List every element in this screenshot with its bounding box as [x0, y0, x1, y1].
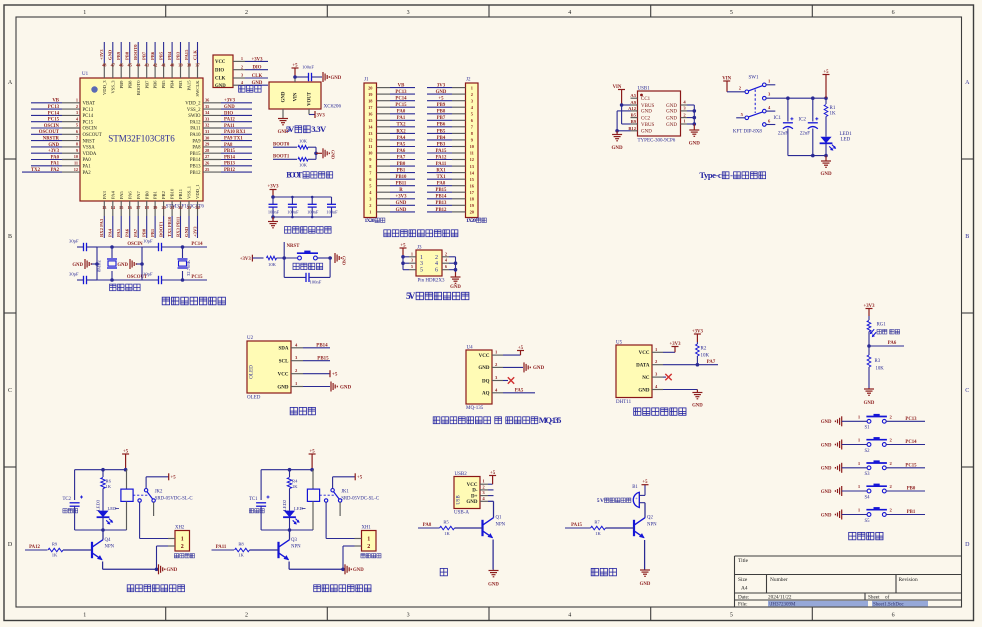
- relay switch JK1: [320, 489, 379, 517]
- wire net PA7 DATA: [663, 360, 718, 366]
- svg-text:VBAT: VBAT: [83, 102, 96, 107]
- svg-text:GND: GND: [641, 130, 652, 135]
- svg-text:10K: 10K: [299, 139, 308, 144]
- power +5 regulator: [292, 64, 299, 78]
- svg-text:GND: GND: [821, 420, 832, 425]
- svg-text:B12: B12: [628, 126, 636, 131]
- caption harmful gas MQ-135: [433, 415, 561, 425]
- svg-text:PA11: PA11: [190, 127, 201, 132]
- wire net PB14: [303, 344, 330, 349]
- svg-text:GND: GND: [340, 385, 352, 390]
- J2 pin 15 wire net TX1: [427, 175, 466, 180]
- svg-text:VDD_3: VDD_3: [102, 80, 107, 95]
- svg-text:PB4: PB4: [437, 136, 446, 141]
- wire net RX3 PB11 at U1 pin 22: [175, 216, 180, 238]
- svg-text:LED3: LED3: [96, 499, 101, 511]
- svg-text:19: 19: [153, 205, 157, 210]
- svg-text:+5: +5: [518, 346, 524, 351]
- svg-text:PB5: PB5: [437, 129, 446, 134]
- svg-text:10: 10: [74, 154, 78, 159]
- svg-text:45: 45: [128, 63, 132, 68]
- svg-text:GND: GND: [282, 91, 287, 102]
- svg-text:GND: GND: [450, 285, 461, 290]
- J2 pin 10 wire net PB3: [427, 142, 466, 147]
- connector J1 1x20 header: [364, 78, 377, 218]
- svg-text:J2: J2: [466, 78, 471, 83]
- svg-text:PA0: PA0: [83, 158, 92, 163]
- svg-text:1X20: 1X20: [365, 218, 375, 224]
- U1 pin 41 PB5: [161, 63, 166, 89]
- svg-text:+3V3: +3V3: [224, 99, 236, 104]
- svg-text:3: 3: [407, 10, 410, 16]
- svg-text:100nF: 100nF: [268, 210, 280, 215]
- wire Q1 emitter to ground: [492, 540, 494, 570]
- transistor Q1 NPN: [483, 516, 506, 539]
- svg-text:VBUS: VBUS: [641, 104, 655, 109]
- ground button S5: [821, 510, 867, 520]
- J2 pin 13 wire net PA11: [427, 162, 466, 167]
- wire SW1 pin3 to power rail: [766, 96, 828, 100]
- resistor R6 1K: [101, 470, 112, 511]
- J1 pin 15 wire net PA1: [377, 116, 416, 121]
- J1 pin 16 wire net PA0: [377, 110, 416, 115]
- node NRST: [284, 242, 300, 258]
- svg-text:PA5: PA5: [119, 191, 124, 199]
- capacitor 30pF top: [69, 239, 97, 252]
- J1 pin 12 wire net PA4: [377, 136, 416, 141]
- svg-text:PB9: PB9: [119, 80, 124, 89]
- svg-text:22: 22: [178, 205, 182, 210]
- capacitor filter 100nF #3: [307, 197, 319, 217]
- svg-text:Sheet1.SchDoc: Sheet1.SchDoc: [873, 602, 904, 607]
- J3 pin 4 wire: [442, 258, 456, 264]
- svg-text:B: B: [965, 234, 969, 240]
- connector USB2 USB-A: [454, 472, 480, 516]
- J2 pin 7 wire net PB6: [427, 123, 466, 128]
- U1 pin 44 BOOT0: [136, 63, 141, 96]
- power +5 USB2: [488, 471, 496, 484]
- P1 pin 4: [233, 80, 245, 85]
- wire relay Q4 bottom rail: [75, 528, 127, 532]
- svg-text:DIO: DIO: [215, 68, 224, 73]
- svg-text:B5: B5: [631, 113, 637, 118]
- svg-text:43: 43: [145, 63, 149, 68]
- svg-text:VSSA: VSSA: [83, 146, 96, 151]
- svg-text:PC14: PC14: [395, 97, 407, 102]
- svg-text:32: 32: [205, 123, 209, 128]
- svg-text:R5: R5: [443, 520, 449, 525]
- J1 pin 9 wire net PA7: [377, 155, 416, 160]
- wire reset right: [317, 256, 332, 260]
- U1 pin 13 PA3: [102, 191, 107, 216]
- svg-text:OSCOUT: OSCOUT: [83, 133, 102, 138]
- svg-text:VDD_2: VDD_2: [185, 102, 201, 107]
- caption MCU minimal system: [162, 297, 225, 305]
- J1 pin 4 wire net R: [377, 188, 416, 193]
- svg-text:30pF: 30pF: [69, 272, 79, 277]
- svg-text:5V: 5V: [406, 292, 416, 302]
- svg-text:IC2: IC2: [799, 118, 807, 123]
- wire net +3V3 to U1 pin 9: [31, 149, 62, 154]
- svg-text:GND: GND: [821, 513, 832, 518]
- svg-text:PB15: PB15: [190, 152, 201, 157]
- svg-text:GND: GND: [277, 385, 289, 390]
- svg-text:S5: S5: [865, 519, 871, 524]
- svg-text:8MHz: 8MHz: [97, 260, 102, 272]
- U1 pin 8 VSSA: [62, 142, 95, 151]
- J2 pin 11 wire net PA15: [427, 149, 466, 154]
- svg-text:Q1: Q1: [496, 516, 502, 521]
- U1 pin 4 PC15: [62, 116, 94, 125]
- svg-text:PB5: PB5: [161, 80, 166, 89]
- svg-text:KFT DIP-8X8: KFT DIP-8X8: [733, 129, 762, 134]
- caption crystal circuit: [110, 284, 141, 291]
- svg-text:NPN: NPN: [105, 545, 115, 550]
- svg-text:PB14: PB14: [436, 195, 448, 200]
- svg-text:+3V3: +3V3: [192, 226, 197, 237]
- svg-text:29: 29: [205, 142, 209, 147]
- wire R5 to Q1 base: [455, 527, 483, 529]
- svg-text:PB11: PB11: [396, 182, 407, 187]
- svg-text:PB2: PB2: [161, 190, 166, 199]
- svg-text:U1: U1: [82, 72, 89, 77]
- J2 pin 16 wire net PA8: [427, 182, 466, 187]
- svg-text:DHT11: DHT11: [616, 400, 632, 405]
- svg-text:OSCOUT: OSCOUT: [39, 130, 60, 135]
- svg-text:GND: GND: [666, 110, 677, 115]
- svg-text:PB3: PB3: [437, 142, 446, 147]
- svg-text:PB14: PB14: [190, 158, 201, 163]
- svg-text:PB7: PB7: [141, 51, 146, 60]
- wire net PB0 at S4: [886, 487, 925, 492]
- svg-text:OSCIN: OSCIN: [83, 127, 98, 132]
- svg-text:B1: B1: [632, 485, 638, 490]
- svg-text:5: 5: [411, 264, 413, 269]
- wire net BOOT1 at U1 pin 20: [158, 216, 163, 238]
- power +5 J3: [400, 244, 407, 257]
- svg-text:18: 18: [145, 205, 149, 210]
- svg-text:D+: D+: [471, 494, 478, 499]
- wire net PB7 at U1 pin 43: [141, 42, 146, 63]
- crystal Y2 32.768K: [178, 247, 192, 280]
- capacitor filter 100nF #4: [326, 197, 338, 217]
- IC U1 STM32F103C8T6: [80, 72, 204, 210]
- svg-text:TYPEC-300-9CP6: TYPEC-300-9CP6: [638, 139, 676, 144]
- svg-text:10K: 10K: [299, 163, 308, 168]
- U1 pin 29 PA8: [192, 142, 221, 151]
- U1 pin 15 PA5: [119, 191, 124, 216]
- svg-text:PA5: PA5: [515, 388, 524, 393]
- U2 pin 2: [291, 368, 303, 374]
- svg-text:6: 6: [892, 10, 895, 16]
- svg-text:4: 4: [435, 261, 438, 267]
- svg-text:PA15: PA15: [571, 523, 582, 528]
- svg-text:Q3: Q3: [291, 538, 297, 543]
- wire net PB5 at U1 pin 41: [158, 42, 163, 63]
- U2 pin 1: [291, 381, 303, 387]
- svg-text:12: 12: [74, 167, 78, 172]
- P1 pin 1: [233, 56, 245, 61]
- resistor R1 1K: [824, 98, 836, 137]
- svg-text:C: C: [8, 388, 12, 394]
- J3 pin 6 wire: [442, 264, 456, 270]
- ground OLED: [303, 382, 352, 392]
- wire crystal-1 left rail: [95, 247, 99, 280]
- wire net PB4 at U1 pin 40: [167, 42, 172, 63]
- USB1 pin A9: [630, 100, 637, 105]
- svg-text:PB4: PB4: [167, 51, 172, 60]
- U1 pin 30 PA9: [192, 135, 221, 144]
- crystal Y1 8MHz: [97, 247, 118, 280]
- svg-text:D: D: [8, 542, 13, 548]
- svg-text:5: 5: [76, 123, 78, 128]
- U1 pin 14 PA4: [110, 191, 115, 216]
- svg-text:U2: U2: [247, 336, 254, 341]
- svg-text:GND: GND: [820, 172, 832, 177]
- power +5 MQ-135: [503, 346, 524, 355]
- wire net PB8 at U1 pin 45: [125, 42, 130, 63]
- wire SW1 pin4 stub: [766, 110, 775, 112]
- wire net PB1 at U1 pin 19: [150, 216, 155, 238]
- svg-text:S4: S4: [865, 495, 871, 500]
- svg-text:IC1: IC1: [774, 116, 782, 121]
- J2 pin 17 wire net PB15: [427, 188, 466, 193]
- svg-text:PA6: PA6: [397, 149, 406, 154]
- wire base Q3: [250, 549, 279, 551]
- resistor R5 1K: [440, 520, 455, 536]
- svg-text:BOOT0: BOOT0: [273, 143, 290, 148]
- U1 pin 25 PB12: [190, 167, 221, 176]
- USB1 right pin 1: [681, 119, 695, 124]
- svg-text:PB10: PB10: [396, 175, 408, 180]
- svg-text:3: 3: [411, 258, 413, 263]
- svg-text:R: R: [399, 188, 403, 193]
- USB1 right pin 4: [681, 100, 695, 105]
- svg-text:PA0: PA0: [51, 155, 60, 160]
- svg-text:VCC: VCC: [215, 60, 226, 65]
- caption MCU pin breakout headers: [384, 230, 458, 237]
- svg-text:1K: 1K: [595, 531, 601, 536]
- U1 pin 39 PB3: [178, 63, 183, 89]
- svg-text:R3: R3: [875, 359, 881, 364]
- svg-text:PB6: PB6: [150, 51, 155, 60]
- J1 pin 20 wire net VB: [377, 84, 416, 89]
- wire filter top bus: [271, 195, 331, 199]
- svg-text:PC15: PC15: [48, 118, 60, 123]
- svg-text:SDA: SDA: [278, 347, 288, 352]
- wire net PB9 at U1 pin 46: [116, 42, 121, 63]
- wire net NRSTR to U1 pin 7: [31, 137, 62, 142]
- svg-text:2: 2: [367, 544, 370, 550]
- svg-text:100nF: 100nF: [302, 65, 314, 70]
- svg-text:2: 2: [76, 104, 78, 109]
- power +5 relay Q3: [309, 450, 316, 470]
- svg-text:PB9: PB9: [116, 51, 121, 60]
- svg-text:PA3: PA3: [102, 191, 107, 199]
- wire J3 right bus: [454, 257, 458, 272]
- svg-text:SWIO: SWIO: [188, 114, 201, 119]
- wire net PA1 to U1 pin 11: [31, 162, 62, 167]
- svg-text:PA15: PA15: [187, 80, 192, 91]
- svg-text:TX2: TX2: [31, 168, 41, 173]
- ground relay Q3: [345, 564, 364, 574]
- svg-text:3: 3: [76, 110, 78, 115]
- svg-text:A: A: [8, 80, 13, 86]
- svg-text:VB: VB: [52, 99, 59, 104]
- J3 pin 5 wire: [403, 264, 416, 270]
- svg-text:PA1: PA1: [51, 162, 60, 167]
- ground Q1: [488, 570, 499, 588]
- svg-text:GND: GND: [48, 143, 59, 148]
- svg-text:1: 1: [411, 251, 413, 256]
- J1 pin 13 wire net RX2: [377, 129, 416, 134]
- wire net PB14 at U1 pin 27: [221, 155, 252, 160]
- svg-text:GND: GND: [488, 583, 499, 588]
- svg-text:VDDA: VDDA: [83, 152, 97, 157]
- svg-text:PB14: PB14: [316, 344, 328, 349]
- U1 pin 7 NRST: [62, 135, 95, 144]
- ground button S4: [821, 486, 867, 496]
- svg-text:PA11: PA11: [224, 124, 235, 129]
- svg-text:4: 4: [568, 10, 571, 16]
- svg-text:PB14: PB14: [224, 155, 236, 160]
- svg-text:A9: A9: [630, 100, 636, 105]
- capacitor filter 100nF #2: [287, 197, 299, 217]
- J1 pin 11 wire net PA5: [377, 142, 416, 147]
- svg-text:PA9 TX1: PA9 TX1: [224, 137, 243, 142]
- capacitor IC1 22uF: [774, 98, 794, 155]
- U1 pin 23 VSS_1: [187, 185, 192, 216]
- svg-text:3.3V: 3.3V: [311, 124, 327, 134]
- connector XH1: [362, 526, 377, 552]
- svg-text:PA12: PA12: [29, 545, 40, 550]
- USB2 pin 4: [480, 496, 488, 502]
- svg-text:SCL: SCL: [279, 360, 289, 365]
- svg-text:PB1: PB1: [907, 510, 916, 515]
- svg-text:GND: GND: [331, 76, 342, 81]
- wire net GND at U1 pin 47: [108, 42, 113, 63]
- connector J3 HDR2X3: [416, 246, 442, 277]
- U1 pin 11 PA1: [62, 161, 91, 170]
- J2 pin 4 wire net PB9: [427, 103, 466, 108]
- wire relay Q3 top rail: [261, 468, 314, 472]
- svg-text:CLK: CLK: [192, 50, 197, 60]
- capacitor IC2 22uF: [799, 98, 819, 155]
- svg-text:5: 5: [420, 268, 423, 274]
- wire net BOOT0 at U1 pin 44: [133, 42, 138, 63]
- svg-text:R6: R6: [106, 479, 112, 484]
- wire net PA8 at U1 pin 29: [221, 143, 252, 148]
- USB2 pin 1: [480, 479, 488, 485]
- svg-text:+3V3: +3V3: [240, 257, 252, 262]
- relay coil JK2: [121, 470, 133, 530]
- svg-text:GND: GND: [436, 90, 447, 95]
- ground button S1: [821, 416, 867, 426]
- power VIN: [613, 85, 625, 105]
- svg-text:A5: A5: [630, 93, 636, 98]
- transistor Q3 NPN: [279, 530, 302, 560]
- wire net PB3 at U1 pin 39: [175, 42, 180, 63]
- wire net PA8 base: [418, 523, 440, 528]
- capacitor 10pF bottom: [142, 272, 183, 285]
- svg-text:SRD-05VDC-SL-C: SRD-05VDC-SL-C: [155, 497, 193, 502]
- svg-text:PA0: PA0: [397, 110, 406, 115]
- U1 pin 35 VSS_2: [187, 104, 221, 113]
- ground filter caps: [268, 217, 278, 228]
- connector P1 download port: [213, 55, 233, 89]
- wire net PA7 at U1 pin 17: [133, 216, 138, 238]
- svg-text:GND: GND: [466, 500, 478, 505]
- svg-text:LED2: LED2: [282, 499, 287, 511]
- wire GND bus right: [693, 105, 697, 126]
- svg-text:GND: GND: [612, 146, 624, 151]
- svg-text:PA11: PA11: [436, 162, 447, 167]
- svg-text:+3V3: +3V3: [268, 185, 280, 190]
- svg-text:1X20: 1X20: [466, 218, 476, 224]
- svg-text:PB13: PB13: [190, 165, 201, 170]
- wire net PA6 at U1 pin 16: [125, 216, 130, 238]
- USB2 pin 3: [480, 490, 488, 496]
- capacitor TC1 tantalum: [249, 470, 270, 530]
- svg-text:1K: 1K: [830, 112, 837, 117]
- svg-text:41: 41: [161, 63, 165, 68]
- svg-text:LED: LED: [841, 138, 851, 143]
- svg-text:1: 1: [83, 613, 86, 619]
- J1 pin 6 wire net PB10: [377, 175, 416, 180]
- wire net PB13 at U1 pin 26: [221, 162, 252, 167]
- wire SW1 pin1 stub: [766, 84, 775, 86]
- svg-text:MQ-135: MQ-135: [466, 406, 484, 411]
- U1 pin 33 PA12: [190, 116, 221, 125]
- svg-text:BOOT: BOOT: [286, 171, 303, 180]
- wire net BOOT0: [273, 143, 297, 148]
- wire XH2 pin2 to ground: [157, 546, 176, 569]
- svg-text:100nF: 100nF: [310, 280, 322, 285]
- svg-text:21: 21: [170, 205, 174, 210]
- svg-text:VIN: VIN: [294, 92, 299, 101]
- svg-text:JK1: JK1: [341, 490, 349, 495]
- svg-text:PA8: PA8: [437, 182, 446, 187]
- IC U2 OLED: [247, 336, 291, 401]
- power +5 relay switch JK2: [146, 473, 176, 488]
- svg-text:1: 1: [83, 10, 86, 16]
- svg-text:A12: A12: [628, 106, 637, 111]
- wire USB2 pin2 stub: [488, 489, 494, 491]
- power +3V3 filter: [268, 185, 280, 197]
- ground BOOT: [323, 148, 336, 159]
- resistor R3 10K: [867, 346, 884, 388]
- wire net PC13 to U1 pin 2: [31, 105, 62, 110]
- ground button S3: [821, 463, 867, 473]
- buzzer B1: [632, 485, 639, 508]
- svg-text:PB3: PB3: [178, 80, 183, 89]
- U1 pin 43 PB7: [144, 63, 149, 89]
- svg-text:VCC: VCC: [467, 483, 478, 488]
- svg-text:GND: GND: [396, 201, 407, 206]
- power +3V3 reset: [240, 255, 253, 263]
- J2 pin 1 wire net 3V3: [427, 84, 466, 89]
- svg-text:Pin HDR2X3: Pin HDR2X3: [417, 279, 445, 284]
- J1 pin 18 wire net PC14: [377, 97, 416, 102]
- svg-text:VDD_1: VDD_1: [195, 184, 200, 199]
- svg-text:PA7: PA7: [397, 155, 406, 160]
- svg-text:GND: GND: [72, 263, 83, 268]
- wire net BOOT1: [273, 155, 297, 160]
- wire emitter Q4 to ground: [103, 562, 159, 572]
- J1 pin 3 wire net +3V3: [377, 195, 416, 200]
- label white socket XH2: [174, 554, 194, 558]
- J3 pin 1 wire: [403, 251, 416, 256]
